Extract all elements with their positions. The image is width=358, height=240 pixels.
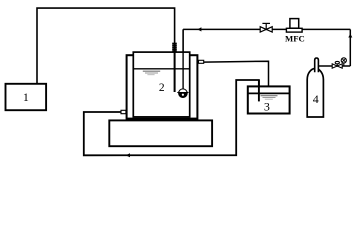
left drain fitting xyxy=(121,110,126,113)
svg-text:2: 2 xyxy=(159,82,165,94)
vent line to trap 3 xyxy=(204,61,269,87)
gas tube redraw over lid xyxy=(182,29,184,89)
flow arrow on gas line xyxy=(197,27,201,31)
gas cylinder 4 xyxy=(307,69,323,117)
svg-text:MFC: MFC xyxy=(285,34,305,44)
inner vessel 2 with lid xyxy=(133,52,189,117)
MFC (mass flow controller) xyxy=(285,19,305,44)
electrode shaft in vessel xyxy=(174,44,176,93)
drain / recirculation loop xyxy=(84,80,259,155)
electrode shaft redraw over lid xyxy=(174,52,176,92)
water level marks in trap xyxy=(261,96,278,100)
cylinder valve (bowtie) xyxy=(332,58,346,68)
water level marks in vessel xyxy=(143,71,160,75)
coil on electrode shaft xyxy=(172,44,177,52)
up arrow on right riser xyxy=(348,34,352,38)
stirrer base xyxy=(109,120,212,146)
needle valve V1 xyxy=(260,23,272,32)
svg-text:3: 3 xyxy=(264,99,270,113)
box 1 xyxy=(6,84,47,110)
valve handle xyxy=(336,63,338,66)
right port fitting xyxy=(199,60,204,63)
liquid surface line in vessel xyxy=(133,68,189,70)
gas line down into vessel xyxy=(182,29,184,89)
pressure gauge xyxy=(343,63,345,66)
svg-text:1: 1 xyxy=(23,90,29,104)
svg-text:4: 4 xyxy=(313,92,319,106)
dip tube into trap xyxy=(258,80,260,101)
cylinder outlet line xyxy=(318,65,350,67)
flow arrow on bottom loop xyxy=(126,153,131,157)
trap bottle 3 xyxy=(248,86,290,113)
gas line right corner down to cylinder valve xyxy=(349,29,351,66)
sparger xyxy=(177,89,188,98)
outer jacket of reactor xyxy=(127,55,198,118)
wire from box 1 to electrode xyxy=(37,8,175,84)
gas supply line (top) xyxy=(183,28,350,30)
